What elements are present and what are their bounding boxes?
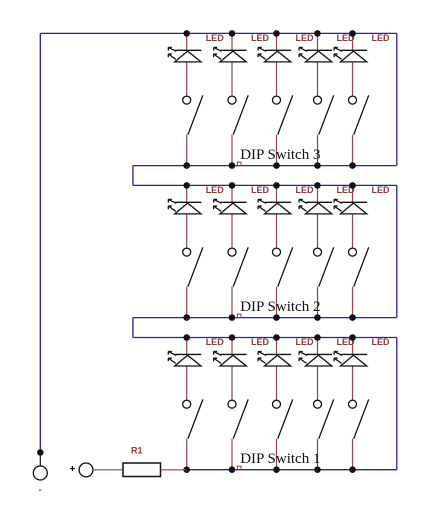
svg-text:LED: LED (251, 33, 270, 43)
svg-text:DIP Switch 2: DIP Switch 2 (240, 299, 320, 315)
svg-text:LED: LED (206, 337, 225, 347)
svg-text:DIP Switch 1: DIP Switch 1 (240, 451, 320, 467)
svg-text:LED: LED (206, 185, 225, 195)
svg-text:LED: LED (251, 185, 270, 195)
svg-text:LED: LED (372, 33, 391, 43)
svg-text:R1: R1 (131, 446, 143, 456)
svg-text:LED: LED (372, 337, 391, 347)
svg-text:LED: LED (296, 33, 315, 43)
svg-text:LED: LED (372, 185, 391, 195)
svg-text:LED: LED (251, 337, 270, 347)
svg-text:LED: LED (296, 337, 315, 347)
svg-text:DIP Switch 3: DIP Switch 3 (240, 147, 320, 163)
svg-text:LED: LED (206, 33, 225, 43)
svg-text:LED: LED (296, 185, 315, 195)
